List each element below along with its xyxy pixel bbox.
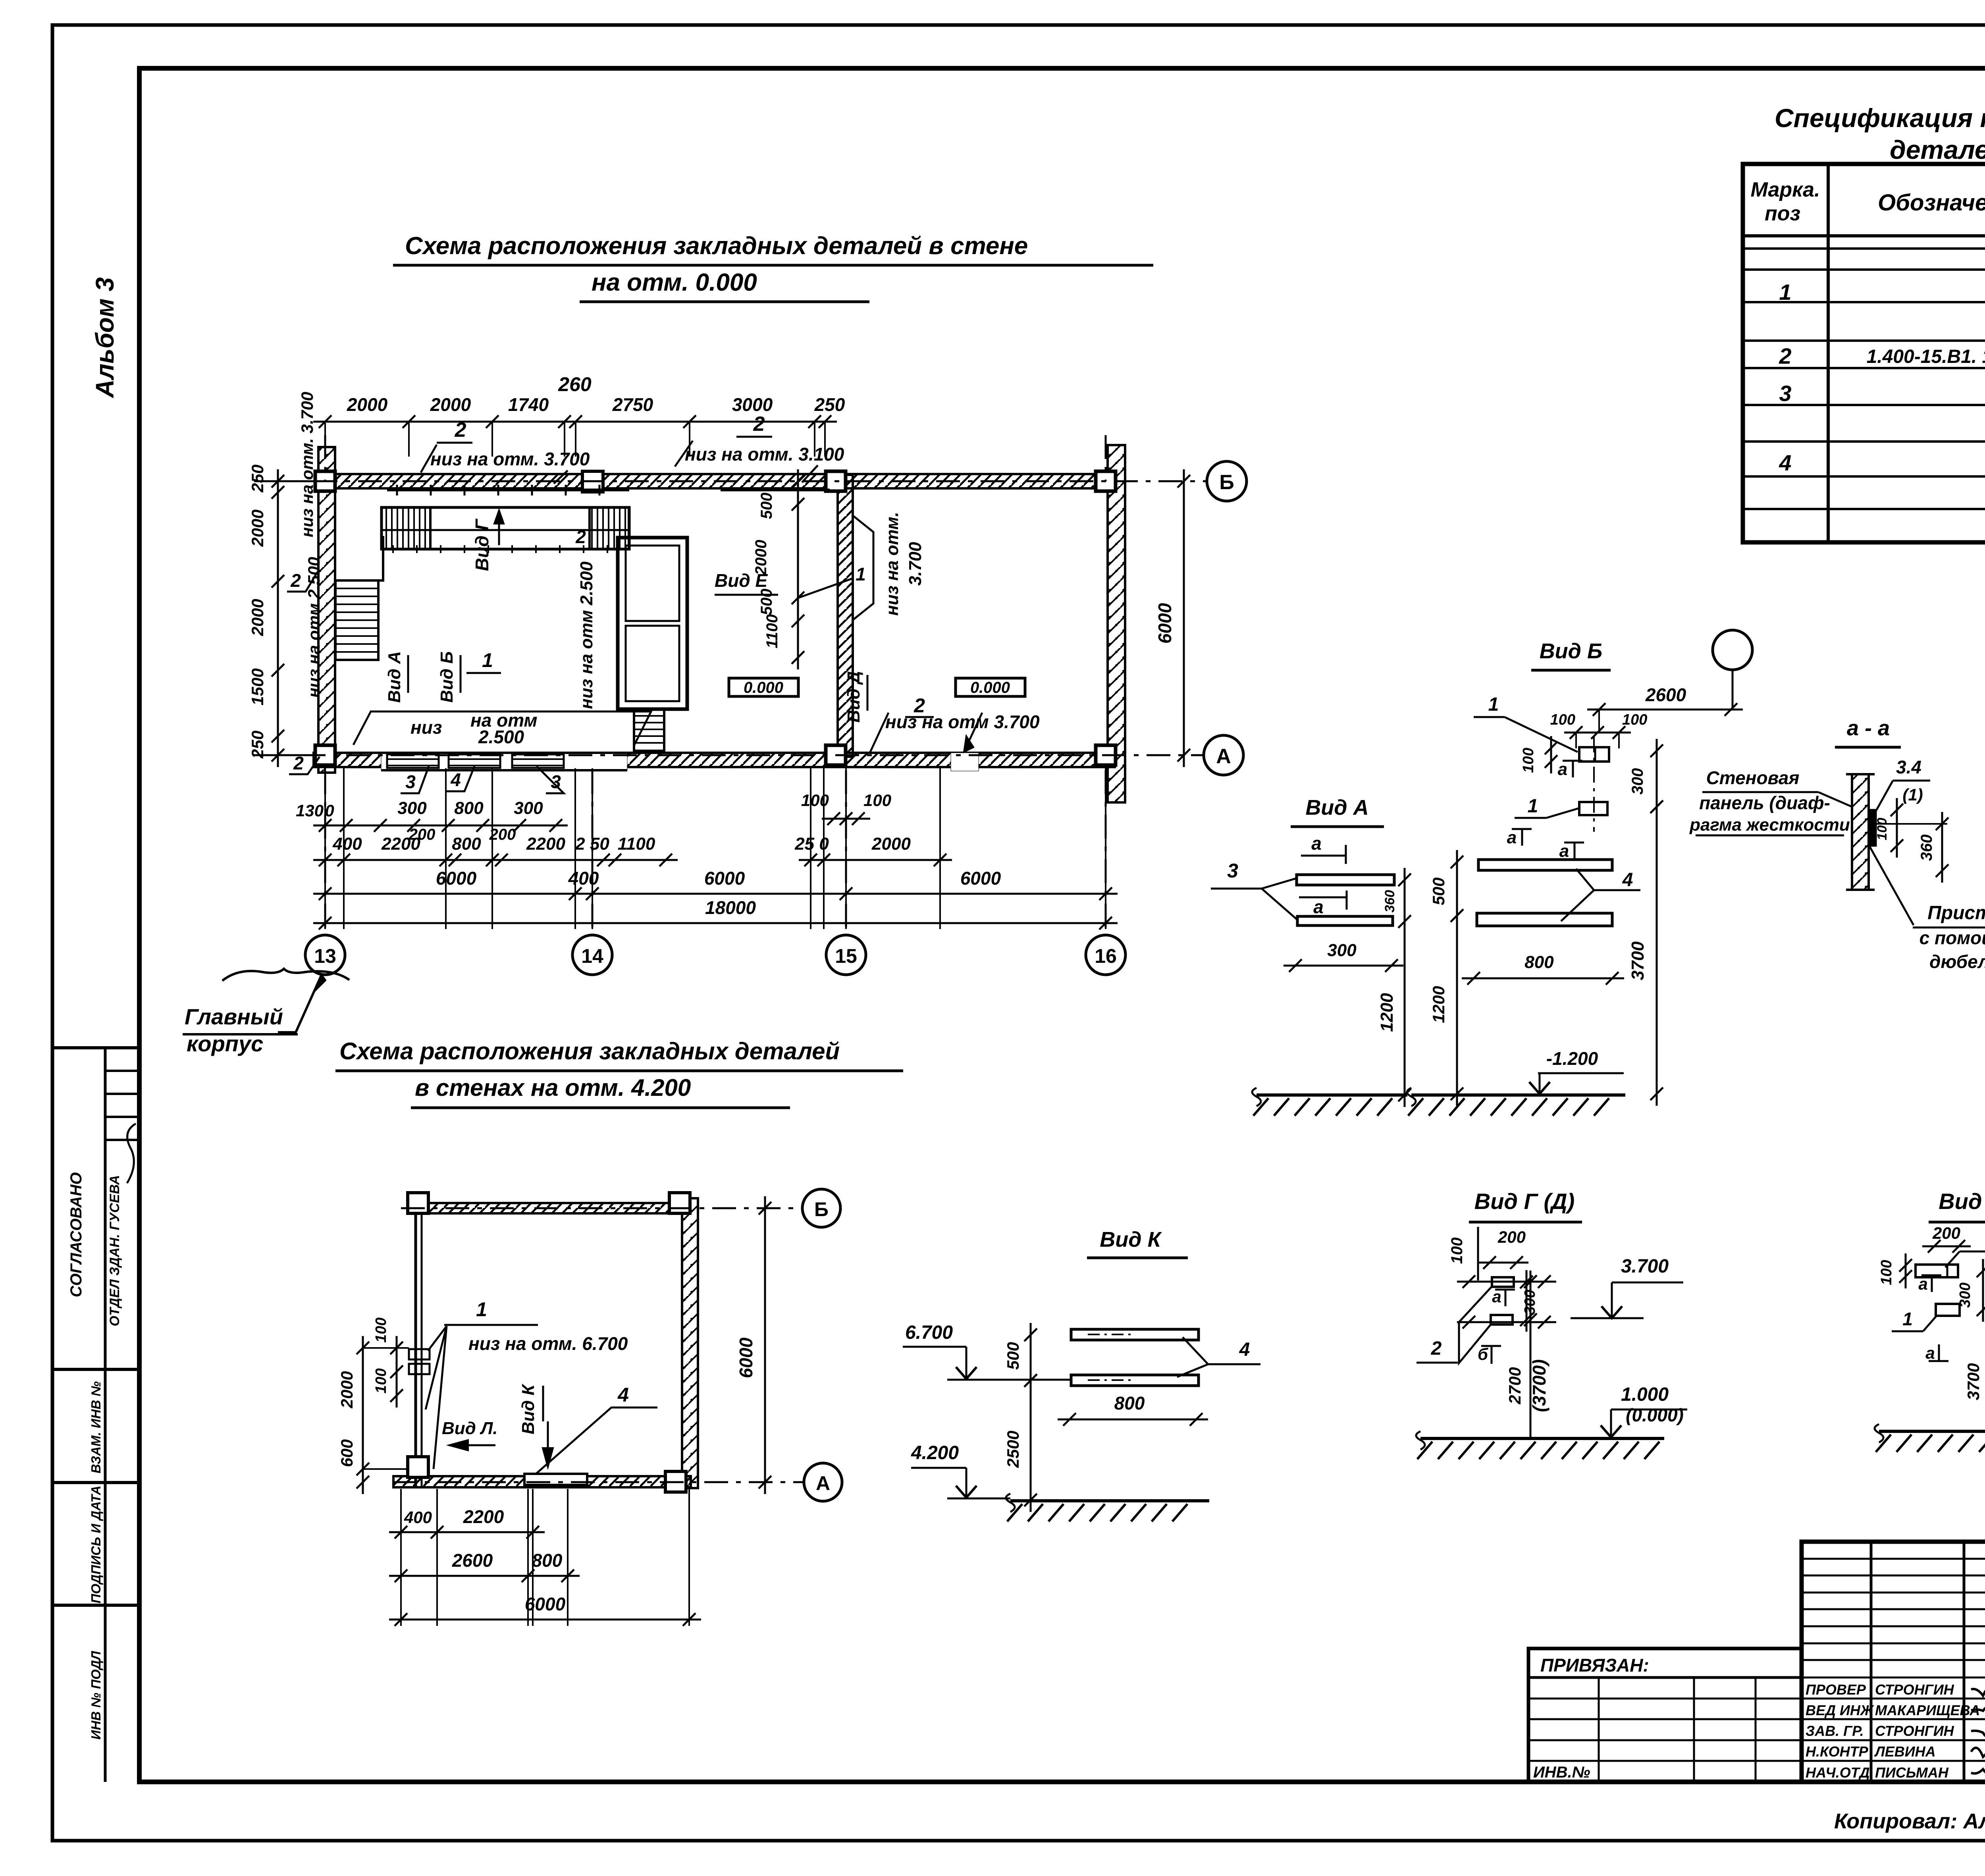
svg-text:6000: 6000	[960, 868, 1001, 889]
svg-text:13: 13	[314, 945, 336, 967]
svg-text:100: 100	[373, 1368, 389, 1393]
svg-text:ИНВ № ПОДЛ: ИНВ № ПОДЛ	[89, 1650, 103, 1739]
svg-text:800: 800	[452, 834, 481, 854]
svg-text:низ на отм. 6.700: низ на отм. 6.700	[468, 1333, 628, 1354]
svg-text:1: 1	[1779, 280, 1791, 305]
svg-text:1200: 1200	[1429, 986, 1448, 1023]
svg-text:3.700: 3.700	[906, 542, 925, 586]
svg-text:Вид К: Вид К	[1100, 1228, 1162, 1251]
svg-text:130: 130	[296, 801, 324, 820]
svg-text:4: 4	[1239, 1339, 1250, 1360]
svg-text:а: а	[1558, 760, 1567, 779]
svg-text:СОГЛАСОВАНО: СОГЛАСОВАНО	[67, 1172, 85, 1298]
svg-text:16: 16	[1095, 945, 1117, 967]
svg-text:6000: 6000	[1154, 603, 1175, 644]
svg-text:100: 100	[1875, 818, 1890, 841]
svg-text:2000: 2000	[871, 834, 911, 854]
svg-text:2600: 2600	[452, 1550, 493, 1571]
svg-text:Вид Л.: Вид Л.	[442, 1419, 498, 1438]
svg-text:0.000: 0.000	[970, 679, 1010, 696]
svg-text:низ на отм.: низ на отм.	[883, 512, 902, 616]
svg-text:2000: 2000	[337, 1371, 356, 1408]
svg-text:0: 0	[325, 801, 334, 820]
svg-text:низ на отм 2.500: низ на отм 2.500	[577, 561, 596, 709]
svg-text:360: 360	[1918, 835, 1935, 861]
svg-text:Стеновая: Стеновая	[1706, 767, 1800, 788]
svg-text:ВЕД ИНЖ: ВЕД ИНЖ	[1806, 1702, 1874, 1718]
svg-text:Вид Е (Л): Вид Е (Л)	[1939, 1189, 1985, 1214]
svg-text:6.700: 6.700	[905, 1322, 953, 1343]
svg-text:300: 300	[1327, 941, 1357, 960]
svg-text:Альбом 3: Альбом 3	[91, 277, 119, 398]
svg-text:(0.000): (0.000)	[1626, 1405, 1684, 1425]
svg-text:1: 1	[856, 564, 866, 584]
svg-text:а: а	[1313, 897, 1324, 917]
svg-text:2200: 2200	[463, 1506, 504, 1527]
svg-text:деталей в стенах: деталей в стенах	[1890, 135, 1985, 164]
svg-text:4: 4	[1622, 870, 1633, 891]
svg-text:ПРОВЕР: ПРОВЕР	[1806, 1681, 1866, 1698]
svg-text:1: 1	[1902, 1309, 1913, 1329]
svg-text:рагма жесткости: рагма жесткости	[1689, 815, 1850, 835]
svg-text:-1.200: -1.200	[1546, 1048, 1598, 1069]
svg-text:ИНВ.№: ИНВ.№	[1533, 1764, 1590, 1781]
svg-text:Вид К: Вид К	[518, 1383, 538, 1434]
svg-text:100: 100	[1448, 1238, 1466, 1264]
svg-text:200: 200	[409, 826, 436, 843]
svg-text:4: 4	[1779, 450, 1791, 475]
svg-text:2.500: 2.500	[478, 727, 524, 747]
svg-text:3: 3	[1227, 860, 1238, 882]
svg-text:Б: Б	[1219, 471, 1234, 494]
svg-text:а: а	[1918, 1274, 1927, 1293]
svg-text:А: А	[1216, 745, 1231, 768]
svg-text:Вид А: Вид А	[1305, 796, 1368, 819]
svg-text:100: 100	[373, 1317, 389, 1342]
svg-text:2000: 2000	[248, 509, 267, 547]
svg-text:360: 360	[1382, 890, 1397, 913]
svg-text:2700: 2700	[1505, 1367, 1524, 1404]
svg-text:Н.КОНТР: Н.КОНТР	[1806, 1743, 1869, 1760]
svg-text:100: 100	[801, 791, 829, 810]
svg-text:6000: 6000	[736, 1337, 756, 1378]
svg-text:а: а	[1507, 828, 1517, 847]
svg-text:ОТДЕЛ ЗДАН. ГУСЕВА: ОТДЕЛ ЗДАН. ГУСЕВА	[107, 1175, 122, 1326]
svg-text:2: 2	[575, 526, 586, 547]
svg-text:1.000: 1.000	[1621, 1384, 1669, 1405]
svg-text:1.400-15.В1. 110-08: 1.400-15.В1. 110-08	[1867, 346, 1985, 367]
svg-text:низ на отм. 3.700: низ на отм. 3.700	[298, 392, 316, 537]
svg-text:2000: 2000	[430, 394, 471, 415]
svg-text:дюбелей: дюбелей	[1929, 951, 1985, 972]
svg-text:6000: 6000	[436, 868, 477, 889]
svg-text:МАКАРИЩЕВА: МАКАРИЩЕВА	[1875, 1702, 1980, 1718]
svg-text:Вид А: Вид А	[385, 651, 404, 703]
svg-text:3: 3	[405, 771, 416, 792]
svg-text:1: 1	[1528, 796, 1538, 817]
svg-text:500: 500	[758, 589, 775, 615]
svg-text:2500: 2500	[1004, 1431, 1022, 1468]
svg-text:2: 2	[1431, 1338, 1442, 1359]
svg-text:400: 400	[568, 868, 599, 889]
svg-text:2600: 2600	[1645, 684, 1686, 705]
svg-text:1100: 1100	[618, 834, 655, 854]
svg-text:100: 100	[1550, 711, 1575, 728]
svg-text:250: 250	[814, 394, 845, 415]
svg-text:2200: 2200	[526, 834, 565, 854]
svg-text:1: 1	[476, 1298, 487, 1321]
svg-text:Марка.: Марка.	[1751, 178, 1820, 201]
svg-text:2000: 2000	[248, 599, 267, 636]
svg-text:250: 250	[248, 465, 267, 493]
svg-text:Вид Б: Вид Б	[437, 651, 457, 702]
svg-text:500: 500	[758, 493, 775, 519]
svg-text:панель (диаф-: панель (диаф-	[1699, 792, 1830, 813]
svg-text:низ на отм. 3.700: низ на отм. 3.700	[430, 449, 590, 469]
svg-text:260: 260	[558, 373, 592, 395]
svg-text:200: 200	[1497, 1228, 1526, 1246]
svg-text:500: 500	[1004, 1342, 1022, 1370]
svg-text:15: 15	[835, 945, 857, 967]
svg-text:а: а	[1311, 833, 1322, 854]
svg-text:3700: 3700	[1628, 941, 1648, 980]
svg-text:1200: 1200	[1377, 993, 1397, 1032]
svg-text:3.4: 3.4	[1896, 757, 1921, 777]
svg-text:2000: 2000	[347, 394, 388, 415]
svg-text:Вид Д: Вид Д	[844, 671, 863, 723]
svg-text:в стенах на отм. 4.200: в стенах на отм. 4.200	[415, 1074, 691, 1101]
svg-text:Спецификация к схеме распол: Спецификация к схеме расположения заклад…	[1775, 103, 1985, 133]
svg-text:18000: 18000	[705, 897, 756, 918]
svg-text:300: 300	[1629, 768, 1646, 795]
svg-text:800: 800	[454, 798, 484, 818]
svg-text:1: 1	[482, 649, 493, 671]
svg-text:1500: 1500	[248, 668, 267, 705]
svg-text:(3700): (3700)	[1529, 1359, 1549, 1412]
svg-text:ПРИВЯЗАН:: ПРИВЯЗАН:	[1540, 1655, 1649, 1675]
svg-text:1100: 1100	[763, 614, 781, 648]
svg-text:100: 100	[863, 791, 891, 810]
svg-text:Пристрелить: Пристрелить	[1927, 902, 1985, 924]
svg-text:200: 200	[1932, 1224, 1960, 1242]
svg-text:Б: Б	[814, 1198, 829, 1220]
svg-text:1: 1	[1488, 694, 1499, 715]
svg-text:ВЗАМ. ИНВ №: ВЗАМ. ИНВ №	[89, 1381, 103, 1473]
svg-text:с помощью: с помощью	[1919, 927, 1985, 948]
svg-text:800: 800	[532, 1550, 563, 1571]
svg-text:400: 400	[332, 834, 362, 854]
svg-text:Схема расположения закладных: Схема расположения закладных деталей	[339, 1038, 840, 1064]
svg-text:Копировал: Алешикова: Копировал: Алешикова	[1834, 1809, 1985, 1833]
svg-text:800: 800	[1524, 952, 1554, 972]
svg-text:Главный: Главный	[185, 1004, 283, 1029]
svg-text:500: 500	[1429, 877, 1448, 905]
svg-text:ПОДПИСЬ И ДАТА: ПОДПИСЬ И ДАТА	[89, 1486, 103, 1604]
svg-text:а: а	[1925, 1344, 1935, 1362]
svg-text:2: 2	[1779, 343, 1791, 368]
svg-text:800: 800	[1114, 1393, 1145, 1413]
svg-text:низ на отм 3.700: низ на отм 3.700	[885, 711, 1040, 732]
svg-text:100: 100	[1520, 748, 1537, 773]
svg-text:100: 100	[1878, 1260, 1895, 1285]
svg-text:Вид Г: Вид Г	[472, 519, 492, 571]
svg-text:Вид Б: Вид Б	[1540, 639, 1603, 663]
svg-text:корпус: корпус	[187, 1031, 263, 1056]
svg-text:14: 14	[581, 945, 603, 967]
svg-text:100: 100	[1622, 711, 1647, 728]
svg-text:400: 400	[404, 1508, 432, 1527]
svg-text:6000: 6000	[525, 1594, 566, 1614]
svg-text:300: 300	[397, 798, 427, 818]
svg-text:ЗАВ. ГР.: ЗАВ. ГР.	[1806, 1723, 1864, 1739]
svg-text:на отм. 0.000: на отм. 0.000	[592, 269, 757, 296]
svg-text:3000: 3000	[732, 394, 773, 415]
svg-text:4.200: 4.200	[911, 1442, 959, 1463]
svg-text:СТРОНГИН: СТРОНГИН	[1875, 1723, 1954, 1739]
svg-text:2000: 2000	[752, 540, 770, 576]
svg-text:(1): (1)	[1902, 785, 1923, 804]
svg-text:2750: 2750	[612, 394, 653, 415]
svg-text:3: 3	[1779, 381, 1791, 406]
svg-text:ПИСЬМАН: ПИСЬМАН	[1875, 1764, 1949, 1781]
svg-text:Схема расположения закладных: Схема расположения закладных деталей в с…	[405, 232, 1028, 260]
svg-text:300: 300	[514, 798, 543, 818]
svg-text:2: 2	[290, 570, 301, 591]
svg-text:низ: низ	[410, 717, 442, 738]
svg-text:4: 4	[450, 769, 461, 790]
svg-text:3700: 3700	[1964, 1363, 1983, 1400]
svg-text:Вид Г (Д): Вид Г (Д)	[1474, 1189, 1575, 1214]
svg-text:а - а: а - а	[1847, 716, 1890, 740]
svg-text:поз: поз	[1765, 202, 1800, 225]
svg-text:низ на отм 2.500: низ на отм 2.500	[304, 557, 323, 698]
svg-text:2: 2	[753, 413, 765, 436]
svg-text:б: б	[1478, 1345, 1488, 1363]
svg-text:А: А	[816, 1472, 830, 1494]
svg-text:600: 600	[337, 1439, 356, 1467]
svg-text:1740: 1740	[508, 394, 549, 415]
svg-text:СТРОНГИН: СТРОНГИН	[1875, 1681, 1954, 1698]
svg-text:ЛЕВИНА: ЛЕВИНА	[1874, 1743, 1936, 1760]
svg-text:низ на отм. 3.100: низ на отм. 3.100	[685, 444, 844, 465]
svg-text:4: 4	[617, 1384, 629, 1406]
svg-text:6000: 6000	[704, 868, 745, 889]
svg-text:3.700: 3.700	[1621, 1256, 1669, 1277]
svg-text:0.000: 0.000	[744, 679, 783, 696]
svg-text:а: а	[1559, 841, 1569, 861]
svg-text:Обозначение: Обозначение	[1878, 190, 1985, 216]
svg-text:НАЧ.ОТД: НАЧ.ОТД	[1806, 1764, 1870, 1781]
